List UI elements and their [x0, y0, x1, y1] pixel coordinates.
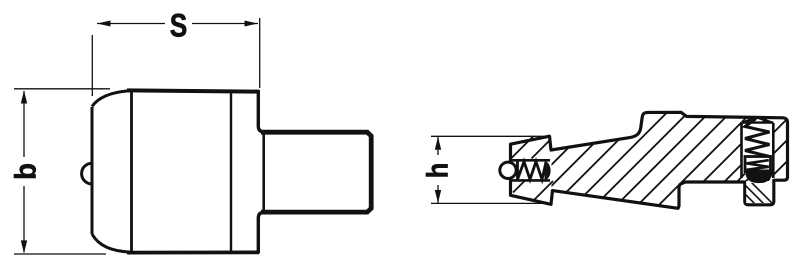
dimension b: bottom arrowhead — [21, 240, 27, 253]
block hatch below hole — [513, 181, 553, 201]
spring seat crescent (block hole) — [545, 161, 551, 180]
horizontal spring in block hole — [518, 162, 547, 180]
dimension b: top extension line — [14, 88, 110, 90]
bore top chamfer (tent) — [742, 117, 774, 123]
spring seat blob (filled) — [746, 170, 773, 184]
body outline: right edge lower with fillet into shank bottom — [258, 212, 265, 253]
dimension S: right arrowhead — [245, 21, 259, 27]
pin head box — [745, 157, 771, 173]
body inner edge line (right chamfer boundary) — [230, 91, 232, 252]
dimension h: dimension line — [437, 137, 439, 203]
bore outline — [742, 123, 774, 178]
svg-text:S: S — [170, 9, 188, 44]
body outline: top edge — [127, 90, 259, 91]
pin head inner spring — [747, 160, 769, 170]
body outline: bottom-left chamfer curve — [92, 234, 131, 252]
hole in left block (drilled bore for ball) — [512, 160, 550, 180]
bore + pin interior blanked — [741, 122, 773, 180]
body outline: left edge — [91, 107, 94, 234]
dimension h: top arrowhead — [435, 137, 441, 150]
dimension b: bottom extension line — [14, 253, 106, 255]
svg-text:h: h — [421, 163, 454, 179]
dimension h: top extension line — [431, 135, 546, 137]
ball (section) — [500, 162, 516, 178]
body outline: top-left chamfer curve — [92, 91, 131, 107]
shank (square drive) outline — [261, 132, 371, 212]
body outline: right edge upper with fillet into shank top — [258, 90, 265, 132]
block hatch above hole — [512, 136, 550, 159]
section body outline (white filled) — [511, 112, 788, 208]
dimension h: bottom extension line — [431, 202, 546, 204]
svg-text:b: b — [10, 163, 43, 180]
section hatching (45 deg) clipped to body — [503, 110, 800, 213]
body outline: bottom edge — [127, 250, 259, 254]
vertical spring in bore — [745, 119, 770, 157]
dimension S: left extension line — [91, 35, 93, 96]
dimension h: bottom arrowhead — [435, 190, 441, 203]
shank base edge line — [262, 134, 265, 210]
dimension b: top arrowhead — [21, 91, 27, 104]
bore top edge — [742, 121, 774, 123]
dimension S: left arrowhead — [97, 21, 111, 27]
body inner edge line (chamfer boundary) — [130, 91, 133, 252]
dimension b: dimension line — [23, 91, 25, 253]
dimension S: dimension line — [97, 23, 258, 25]
ball detent bump (front view) — [82, 163, 92, 184]
pin hatching (backslash) — [733, 182, 775, 206]
ledge corner hatch left of pin — [738, 174, 745, 182]
dimension S: right extension line — [259, 18, 261, 88]
